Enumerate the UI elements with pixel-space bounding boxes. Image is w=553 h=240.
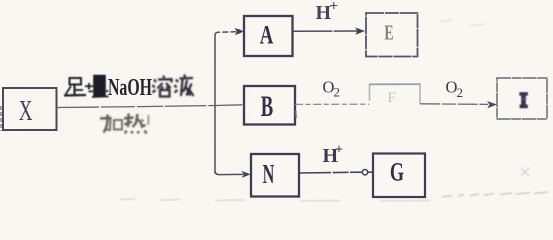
svg-text:NaOH: NaOH: [108, 75, 152, 101]
wire N to G: [299, 171, 362, 174]
svg-text:2: 2: [457, 85, 464, 100]
svg-text:N: N: [263, 159, 275, 189]
svg-text:F: F: [388, 90, 396, 106]
box M: [497, 78, 547, 119]
溶: [154, 80, 156, 83]
label M (dark glyph): [519, 92, 528, 108]
加: [100, 117, 112, 120]
svg-text:B: B: [261, 91, 273, 123]
label 足量NaOH溶液: [64, 75, 109, 97]
box N: [251, 154, 299, 197]
box G: [373, 154, 425, 198]
wire A to E: [293, 30, 358, 32]
svg-text:+: +: [335, 143, 343, 158]
svg-text:G: G: [390, 157, 404, 186]
scan edge mark left: [0, 106, 2, 131]
wire B to F: [295, 103, 369, 105]
svg-text:X: X: [19, 97, 33, 127]
box B: [244, 86, 295, 125]
svg-text:+: +: [330, 0, 339, 15]
box F (faint): [370, 84, 421, 103]
量 (blobbed): [85, 85, 93, 87]
wire F to M: [420, 103, 488, 106]
热: [127, 114, 130, 128]
液: [176, 80, 178, 83]
vertical branch wire: [214, 35, 216, 174]
box E: [366, 13, 418, 57]
wire branch to A: [215, 32, 236, 35]
svg-text:2: 2: [334, 85, 341, 100]
wire X to branch: [57, 105, 243, 108]
svg-text:E: E: [384, 21, 393, 45]
junction circle: [362, 170, 367, 175]
label 加热: [100, 114, 149, 134]
faint x mark: [521, 168, 530, 177]
box X: [3, 88, 57, 130]
faint smudges: [120, 192, 548, 201]
red speck: [295, 110, 298, 118]
足: [70, 78, 82, 85]
svg-text:A: A: [260, 21, 274, 50]
wire branch to N: [215, 171, 243, 175]
box A: [244, 16, 293, 56]
